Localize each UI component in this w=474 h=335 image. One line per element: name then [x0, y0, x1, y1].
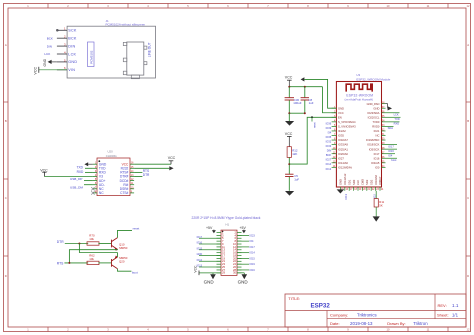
- junction VCC/C30: [288, 86, 290, 88]
- svg-text:BCK: BCK: [326, 153, 332, 157]
- wire R70 to Q10 base: [98, 243, 111, 245]
- border column ticks top: [48, 4, 448, 9]
- U3 right pin stubs: [382, 104, 386, 168]
- wire H1 left row 9: [199, 255, 221, 257]
- U20 right pin numbers 16-9: [131, 163, 134, 194]
- svg-text:IO12/MDI%: IO12/MDI%: [338, 165, 352, 169]
- wire RXD: [85, 171, 93, 173]
- J1 pin 6 wire: [57, 69, 67, 71]
- svg-text:NC: NC: [99, 191, 104, 195]
- svg-text:reset: reset: [133, 227, 140, 231]
- border column ticks bottom: [48, 327, 448, 332]
- svg-text:IO22/SCL: IO22/SCL: [368, 115, 380, 119]
- capacitor C8 bottom lead: [304, 100, 306, 113]
- svg-text:DIN: DIN: [327, 149, 332, 153]
- svg-text:VCC: VCC: [194, 265, 198, 273]
- wire H1 right row 10: [237, 257, 249, 259]
- module U3 body: [336, 82, 381, 188]
- svg-text:IO27: IO27: [338, 156, 344, 160]
- svg-text:PCM5102A without silkscreen: PCM5102A without silkscreen: [106, 22, 146, 26]
- svg-text:IO35: IO35: [338, 134, 344, 138]
- wire IO17: [386, 144, 398, 146]
- svg-text:RXD0: RXD0: [372, 125, 380, 129]
- svg-text:RTS: RTS: [57, 261, 64, 265]
- ground arrow below R11: [373, 216, 380, 221]
- svg-text:DTR: DTR: [143, 173, 150, 177]
- svg-text:B: B: [5, 119, 7, 123]
- audio jack left contact pads: [123, 42, 127, 45]
- U3 right pin numbers: [382, 102, 385, 168]
- J1 pin 1 wire: [57, 29, 67, 31]
- svg-text:CLK: CLK: [356, 180, 360, 185]
- svg-text:VIN: VIN: [68, 68, 75, 72]
- IC U20 CH340G body: [97, 158, 130, 196]
- svg-text:I34/A2: I34/A2: [338, 129, 346, 133]
- junction on EN wire: [311, 116, 313, 118]
- svg-text:IO39: IO39: [326, 126, 332, 130]
- wire RTS: [134, 171, 142, 173]
- svg-text:IO10/A8: IO10/A8: [374, 175, 378, 185]
- U20 left pin names: [99, 162, 107, 195]
- wire USB_DP: [84, 180, 93, 182]
- svg-text:ESP32_WROOM Module: ESP32_WROOM Module: [356, 77, 390, 81]
- J1 pin 4 wire: [57, 53, 67, 55]
- svg-text:TXD0: TXD0: [373, 120, 380, 124]
- wire DTR branch down to Q20 emitter: [79, 244, 117, 253]
- junction gnd rail right: [304, 112, 306, 114]
- svg-text:IO27: IO27: [326, 158, 332, 162]
- svg-text:A: A: [467, 43, 469, 47]
- svg-text:1uF: 1uF: [294, 177, 299, 181]
- title block divider vertical left: [326, 311, 328, 328]
- ground flag arrow on U20 pin 1: [88, 163, 93, 165]
- svg-text:SDA: SDA: [388, 126, 394, 130]
- svg-text:LCK: LCK: [68, 52, 76, 56]
- junction on DTR net: [78, 243, 80, 245]
- border row letters: [5, 43, 469, 278]
- wire VCC rail horizontal: [289, 86, 322, 88]
- H1 even pin numbers: [233, 230, 237, 274]
- U20 left pin stubs: [93, 164, 97, 193]
- svg-text:VCC: VCC: [34, 66, 38, 74]
- wire H1 right row 15: [237, 272, 244, 274]
- svg-text:C: C: [5, 196, 7, 200]
- svg-text:IO4: IO4: [388, 154, 393, 158]
- audio jack LINE OUT body: [127, 42, 144, 75]
- svg-text:IO17: IO17: [197, 236, 203, 239]
- wire ground rail below caps: [289, 112, 305, 114]
- svg-text:IO23/SDA: IO23/SDA: [367, 111, 379, 115]
- svg-text:IO16: IO16: [388, 149, 394, 153]
- wire H1 left row 13: [199, 266, 221, 268]
- junction gnd rail left: [288, 112, 290, 114]
- capacitor C30 bottom lead: [288, 100, 290, 113]
- svg-text:IO25/A1: IO25/A1: [338, 147, 348, 151]
- wire Q10 collector to reset: [118, 230, 133, 237]
- ground triangle below C5: [285, 191, 294, 196]
- U20 left pin numbers 1-8: [95, 163, 97, 194]
- svg-text:Company:: Company:: [330, 313, 348, 318]
- svg-text:D: D: [467, 274, 469, 278]
- svg-text:B: B: [467, 119, 469, 123]
- svg-text:IO26/A0: IO26/A0: [338, 152, 348, 156]
- svg-text:GND: GND: [43, 58, 47, 66]
- svg-text:IO0: IO0: [375, 165, 380, 169]
- wire GND arrow to U3 GND pin: [304, 79, 336, 108]
- svg-text:IO14: IO14: [249, 252, 255, 255]
- H1 right pin stubs: [237, 233, 242, 273]
- svg-text:IO23: IO23: [249, 234, 255, 237]
- svg-text:C: C: [467, 196, 469, 200]
- svg-text:GND: GND: [204, 279, 215, 284]
- connector J1 PCM5102A body: [67, 26, 155, 78]
- svg-text:LINE OUT: LINE OUT: [148, 42, 152, 57]
- wire USB_DM: [84, 184, 93, 186]
- wire H1 right row 12: [237, 263, 249, 265]
- junction EN node: [288, 163, 290, 165]
- svg-text:VCC: VCC: [285, 76, 293, 80]
- wire H1 right row 14: [237, 269, 249, 271]
- svg-text:GND: GND: [68, 60, 77, 64]
- net label reset rotated on EN tap: [311, 117, 313, 121]
- svg-text:Triktron: Triktron: [413, 321, 428, 326]
- power flag VCC right of U20: [170, 161, 172, 164]
- svg-text:RXD: RXD: [394, 121, 400, 125]
- svg-text:DIN: DIN: [47, 44, 52, 48]
- ground flag GND on J1 pin 5: [51, 61, 57, 63]
- svg-text:10k: 10k: [89, 237, 94, 241]
- wire IO0 to R11: [375, 191, 377, 199]
- title block outline: [285, 294, 466, 327]
- H1 left pin stubs: [217, 233, 222, 273]
- svg-text:REV:: REV:: [438, 303, 447, 308]
- ground arrow right: [242, 274, 248, 279]
- wire TXD: [386, 116, 401, 118]
- wire H1 left row 15 (VCC): [199, 272, 221, 274]
- capacitor C30 plates: [285, 97, 294, 99]
- svg-text:IO17: IO17: [388, 144, 394, 148]
- svg-text:VCC: VCC: [168, 156, 176, 160]
- svg-text:CH340G: CH340G: [106, 154, 117, 158]
- svg-text:IO9/A7: IO9/A7: [378, 176, 382, 185]
- U3 bottom pin stubs: [340, 187, 380, 191]
- ground arrow left: [210, 274, 216, 279]
- svg-text:IO32/A7: IO32/A7: [338, 138, 348, 142]
- power flag VCC on J1 pin 6: [39, 69, 67, 71]
- svg-text:IO17: IO17: [374, 152, 380, 156]
- wire RXD: [386, 121, 400, 123]
- wire down to gnd triangle: [288, 113, 290, 121]
- svg-text:PCM5102: PCM5102: [90, 50, 94, 64]
- svg-text:220R 2*15P H=8.5MM Ytype Gold-: 220R 2*15P H=8.5MM Ytype Gold-plated bla…: [192, 216, 261, 220]
- wire H1 left GND drop: [212, 273, 214, 275]
- svg-text:IO18/SCK: IO18/SCK: [367, 143, 379, 147]
- svg-text:(xx+AdaFruit HuzzaH): (xx+AdaFruit HuzzaH): [345, 97, 374, 101]
- title block divider horizontal 2: [327, 318, 466, 320]
- U3 right pin names: [366, 102, 380, 170]
- H1 odd pin numbers: [222, 230, 225, 274]
- svg-text:A: A: [5, 43, 7, 47]
- wire TXD: [85, 167, 93, 169]
- svg-text:IO14: IO14: [326, 162, 332, 166]
- J1 pin 3 wire: [57, 45, 67, 47]
- ground flag arrow right of U20: [169, 166, 173, 170]
- resistor R70 body: [87, 242, 99, 245]
- svg-text:IO13: IO13: [344, 193, 348, 199]
- svg-text:GND_PAD: GND_PAD: [367, 102, 380, 106]
- svg-text:IO16: IO16: [249, 269, 255, 272]
- wire H1 right row 6: [237, 246, 249, 248]
- svg-text:Triktronics: Triktronics: [357, 313, 377, 318]
- wire H1 right row 2: [237, 234, 249, 236]
- svg-text:IO19/MISO: IO19/MISO: [366, 138, 379, 142]
- svg-text:5K: 5K: [379, 204, 383, 208]
- svg-text:IO4: IO4: [249, 240, 254, 243]
- U3 left external net labels: [326, 121, 332, 171]
- capacitor C5 bottom lead: [288, 177, 290, 191]
- svg-text:TXD: TXD: [77, 165, 84, 169]
- wire VCC rail down to U3 VCC pin: [323, 87, 337, 113]
- svg-text:+5V: +5V: [240, 226, 247, 230]
- svg-text:IO16: IO16: [374, 156, 380, 160]
- wire H1 left row 3: [199, 237, 221, 239]
- wire Q10 emitter to RTS net: [69, 249, 117, 263]
- svg-text:VCC: VCC: [338, 111, 344, 115]
- svg-text:SD3: SD3: [365, 179, 369, 185]
- ground flag arrow on GND_PAD: [386, 103, 388, 105]
- junction VCC/C8: [304, 86, 306, 88]
- wire R12 to C5: [288, 157, 290, 174]
- svg-text:S8050: S8050: [119, 246, 128, 250]
- wire H1 left row 11: [199, 260, 221, 262]
- ground flag arrow feeding U3 GND pin: [301, 77, 305, 81]
- svg-text:VCC: VCC: [285, 132, 293, 136]
- wire H1 right row 4: [237, 240, 249, 242]
- svg-text:1/1: 1/1: [452, 313, 459, 318]
- wire DTR to R70: [65, 243, 88, 245]
- audio jack right contact pads: [144, 46, 147, 49]
- transistor Q10 S8050 symbol: [112, 238, 118, 250]
- svg-text:IO5/SCK: IO5/SCK: [369, 147, 380, 151]
- title block divider vertical right: [434, 294, 436, 319]
- J1 pin 5 wire: [57, 61, 67, 63]
- capacitor C30 top lead: [288, 87, 290, 98]
- wire LCK: [386, 112, 400, 114]
- svg-text:IO32: IO32: [326, 139, 332, 143]
- title block divider horizontal 1: [285, 310, 466, 312]
- svg-text:IO15: IO15: [249, 257, 255, 260]
- resistor R62 body: [87, 261, 99, 264]
- svg-text:IO2: IO2: [372, 194, 376, 199]
- ground triangle below caps: [285, 121, 294, 126]
- svg-text:USB_DP: USB_DP: [70, 177, 82, 181]
- svg-text:1.1: 1.1: [452, 303, 459, 308]
- svg-text:2019-08-13: 2019-08-13: [350, 321, 373, 326]
- svg-text:IO33/A9: IO33/A9: [338, 143, 348, 147]
- svg-text:S_VP/IO36/A4: S_VP/IO36/A4: [338, 120, 356, 124]
- wire IO16: [386, 148, 398, 150]
- wire U20 VCC pin to VCC flag: [134, 163, 171, 165]
- svg-text:GND: GND: [338, 106, 344, 110]
- svg-text:SD2: SD2: [369, 179, 373, 185]
- wire R11 to ground: [375, 207, 377, 216]
- svg-text:NC: NC: [376, 134, 380, 138]
- U3 left pin numbers: [333, 107, 336, 168]
- wire boot: [386, 157, 398, 159]
- svg-text:SCK: SCK: [68, 29, 77, 33]
- svg-text:IO13/A12: IO13/A12: [343, 173, 347, 185]
- wire U20 R232 pin: [134, 167, 169, 169]
- svg-text:IO15: IO15: [197, 247, 203, 250]
- no-connect X marks on U20 pins 7,8: [91, 187, 94, 195]
- svg-text:Date:: Date:: [330, 321, 340, 326]
- svg-text:GND: GND: [197, 253, 203, 256]
- svg-text:10k: 10k: [89, 257, 94, 261]
- svg-text:IO12: IO12: [326, 167, 332, 171]
- svg-text:12K: 12K: [292, 152, 297, 156]
- svg-text:IO33: IO33: [326, 144, 332, 148]
- wire DTR: [134, 176, 142, 178]
- wire H1 right GND drop: [243, 273, 245, 275]
- svg-text:IO35: IO35: [326, 135, 332, 139]
- svg-text:1uF: 1uF: [309, 101, 314, 105]
- power flag VCC rotated: [198, 271, 200, 276]
- border row ticks right: [466, 102, 471, 256]
- svg-text:CMD: CMD: [361, 179, 365, 185]
- U20 pin 1 marker dot: [98, 160, 100, 162]
- svg-text:Sheet:: Sheet:: [437, 313, 449, 318]
- svg-text:IO14/A6: IO14/A6: [338, 161, 348, 165]
- svg-text:IO17: IO17: [249, 246, 255, 249]
- svg-text:DIN: DIN: [68, 44, 75, 48]
- svg-text:boot: boot: [391, 158, 396, 162]
- svg-text:IO21: IO21: [374, 129, 380, 133]
- svg-text:boot: boot: [132, 271, 138, 275]
- svg-text:+5V: +5V: [206, 226, 213, 230]
- svg-text:TXD: TXD: [394, 117, 399, 121]
- wire SDA: [386, 125, 394, 127]
- svg-text:BCK: BCK: [47, 36, 53, 40]
- wire H1 left row 7: [199, 249, 221, 251]
- header H1 body: [221, 230, 237, 275]
- svg-text:29: 29: [222, 271, 225, 275]
- svg-text:Drawn By:: Drawn By:: [387, 321, 405, 326]
- U3 bottom pin numbers: [341, 189, 384, 191]
- antenna glyph: [346, 84, 372, 91]
- svg-text:GND: GND: [373, 106, 379, 110]
- svg-text:IO19: IO19: [249, 263, 255, 266]
- svg-text:GND: GND: [238, 279, 249, 284]
- svg-text:GND: GND: [339, 179, 343, 185]
- wire EN node to U3 EN pin: [289, 117, 336, 164]
- J1 pin 2 wire: [57, 37, 67, 39]
- svg-text:IO16: IO16: [197, 242, 203, 245]
- wire R62 to Q20 base: [98, 262, 111, 264]
- svg-text:Q20: Q20: [119, 260, 125, 264]
- junction on RTS net: [68, 262, 70, 264]
- svg-text:30: 30: [233, 271, 236, 275]
- wire Q20 emitter up: [117, 253, 119, 258]
- svg-text:reset: reset: [312, 122, 316, 128]
- svg-text:LCK: LCK: [394, 112, 399, 116]
- svg-text:RXD: RXD: [77, 170, 84, 174]
- wire Q20 collector to boot: [118, 269, 132, 271]
- svg-text:CTS#: CTS#: [120, 191, 128, 195]
- capacitor C8 plates: [301, 97, 309, 99]
- wire H1 left row 5: [199, 243, 221, 245]
- resistor R12 body: [287, 147, 291, 158]
- J1 pin names SCK BCK DIN LCK GND VIN: [68, 29, 77, 73]
- svg-text:H1: H1: [226, 222, 230, 226]
- svg-text:VCC: VCC: [40, 168, 48, 172]
- U3 left pin names: [338, 106, 356, 169]
- wire VCC to U20 V3 pin: [44, 176, 93, 178]
- svg-text:ESP32: ESP32: [311, 303, 331, 310]
- J1 pin numbers 1-6: [64, 27, 66, 70]
- svg-text:SD0: SD0: [352, 179, 356, 185]
- svg-text:DTR: DTR: [57, 240, 64, 244]
- wire H1 right row 8: [237, 252, 249, 254]
- resistor R11 body: [374, 199, 378, 207]
- wire IO4: [386, 153, 396, 155]
- border row ticks left: [4, 102, 9, 256]
- svg-text:IO36: IO36: [326, 121, 332, 125]
- svg-text:100uF: 100uF: [293, 101, 301, 105]
- wire RTS to R62: [64, 262, 88, 264]
- svg-text:LCK: LCK: [44, 52, 50, 56]
- svg-text:D: D: [5, 274, 7, 278]
- U20 right pin stubs: [130, 164, 134, 193]
- svg-text:IO4/A5: IO4/A5: [371, 161, 380, 165]
- svg-text:TITLE:: TITLE:: [288, 296, 300, 301]
- svg-text:IO12: IO12: [197, 259, 203, 262]
- svg-text:S_VN/IO39/A3: S_VN/IO39/A3: [338, 125, 356, 129]
- svg-text:SD1: SD1: [347, 179, 351, 185]
- transistor Q20 S8050 symbol (flipped): [112, 257, 118, 269]
- IC PCM5102 sub-symbol body: [88, 42, 95, 67]
- svg-text:BCK: BCK: [68, 37, 77, 41]
- capacitor C5 plates: [285, 173, 293, 175]
- ground arrow below U3 bottom pin 1: [339, 189, 341, 190]
- svg-text:EN: EN: [338, 115, 342, 119]
- U3 left pin stubs: [332, 108, 337, 167]
- svg-text:USB_DM: USB_DM: [70, 185, 83, 189]
- capacitor C8 top lead: [304, 87, 306, 98]
- audio jack bottom notch: [131, 75, 139, 79]
- J1 pin 1 open port marker: [56, 29, 58, 31]
- H1 pin 1 marker dot: [222, 231, 224, 233]
- svg-text:I34: I34: [328, 130, 332, 134]
- U3 bottom pin names rotated: [339, 173, 383, 185]
